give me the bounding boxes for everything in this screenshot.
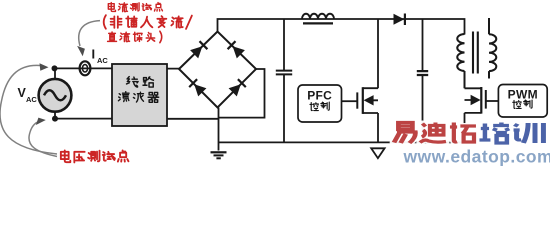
svg-text:AC: AC: [97, 56, 108, 65]
svg-text:PWM: PWM: [508, 88, 538, 102]
svg-text:www.edatop.com: www.edatop.com: [403, 147, 550, 167]
svg-text:AC: AC: [26, 95, 37, 104]
svg-text:I: I: [92, 47, 96, 62]
svg-text:PFC: PFC: [307, 89, 332, 103]
